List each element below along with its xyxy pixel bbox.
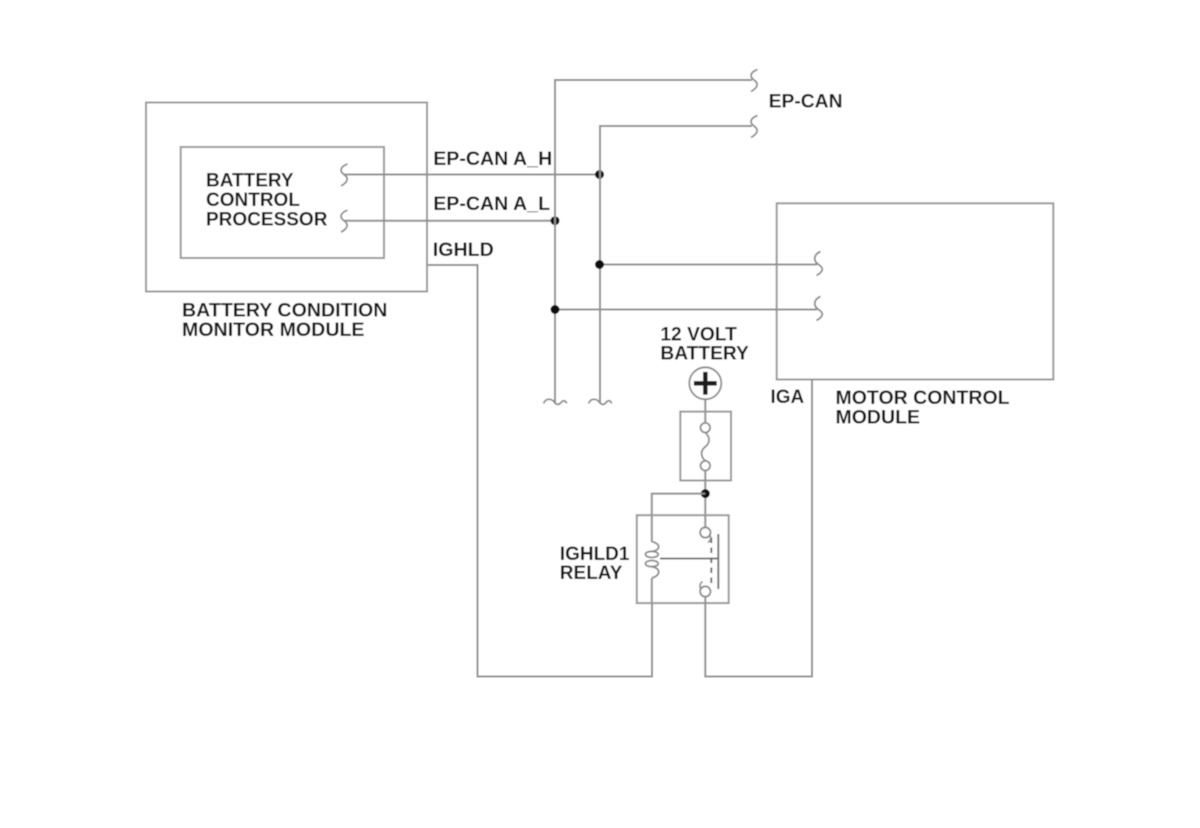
- label: BATTERY CONTROL PROCESSOR: [206, 171, 328, 231]
- break squiggle: EP-CAN top wire 1 right end: [751, 70, 758, 92]
- svg-text:CONTROL: CONTROL: [206, 190, 300, 211]
- svg-text:IGHLD1: IGHLD1: [560, 544, 630, 565]
- svg-text:MODULE: MODULE: [836, 406, 921, 428]
- junction dot: EP-CAN A_L at vertical V1: [551, 216, 560, 225]
- pin break squiggle: BCP pin EP-CAN A_L: [341, 210, 348, 232]
- wire EP-CAN A_H: [344, 174, 600, 176]
- pin break squiggle: BCP pin EP-CAN A_H: [341, 164, 348, 186]
- label: BATTERY CONDITION MONITOR MODULE: [182, 299, 387, 341]
- wire: battery to fuse: [704, 399, 706, 423]
- box: MOTOR CONTROL MODULE: [777, 203, 1054, 379]
- relay contact: top circle: [700, 527, 711, 542]
- fuse element: bottom contact circle: [701, 461, 711, 471]
- svg-text:EP-CAN A_L: EP-CAN A_L: [433, 193, 550, 215]
- label: MOTOR CONTROL MODULE: [836, 387, 1010, 429]
- break squiggle: bottom end of V2: [589, 399, 612, 404]
- pin break squiggle: MCM pin 1: [815, 252, 822, 276]
- wire: relay coil bottom lead: [651, 578, 653, 603]
- wire: IGHLD from BCMM to relay coil bottom: [427, 265, 652, 677]
- wire: vertical bus V1 with top corner to EP-CAN: [555, 80, 752, 402]
- junction dot: fuse output node: [701, 489, 710, 498]
- svg-text:RELAY: RELAY: [560, 563, 623, 584]
- wire: relay switch output down and over to MCM IGA: [705, 380, 812, 677]
- wire EP-CAN A_L: [344, 220, 555, 222]
- svg-text:BATTERY: BATTERY: [206, 171, 294, 192]
- pin break squiggle: MCM pin 2: [815, 297, 822, 321]
- wire: MCM pin wire 1 (from V2 into MCM): [600, 264, 817, 266]
- fuse element: wavy link: [702, 433, 709, 461]
- relay armature link: [660, 558, 718, 560]
- svg-text:IGA: IGA: [771, 387, 805, 408]
- box: IGHLD1 RELAY: [637, 515, 729, 603]
- svg-text:BATTERY: BATTERY: [660, 344, 749, 365]
- junction dot: EP-CAN A_H at vertical V2: [595, 170, 604, 179]
- box: BATTERY CONDITION MONITOR MODULE: [146, 103, 427, 292]
- relay coil: [645, 542, 658, 579]
- label: IGHLD1 RELAY: [560, 544, 630, 584]
- break squiggle: EP-CAN top wire 2 right end: [751, 116, 758, 138]
- relay contact: bottom circle: [700, 582, 711, 597]
- relay switch movable blade: [717, 534, 719, 589]
- svg-text:IGHLD: IGHLD: [433, 239, 494, 261]
- junction dot: MCM wire 2 at V1: [551, 305, 560, 314]
- relay switch dashed guide: [710, 538, 712, 585]
- wire: fuse to junction node: [704, 471, 706, 528]
- fuse element: top contact circle: [701, 423, 711, 433]
- junction dot: MCM wire 1 at V2: [595, 260, 604, 269]
- box: BATTERY CONTROL PROCESSOR: [181, 147, 384, 258]
- svg-text:BATTERY CONDITION: BATTERY CONDITION: [182, 299, 387, 321]
- svg-text:PROCESSOR: PROCESSOR: [206, 210, 328, 231]
- svg-text:EP-CAN A_H: EP-CAN A_H: [433, 148, 552, 170]
- svg-text:12 VOLT: 12 VOLT: [660, 325, 737, 346]
- svg-text:EP-CAN: EP-CAN: [769, 92, 843, 113]
- wire: vertical bus V2 with top corner to EP-CAN: [600, 126, 752, 402]
- fuse box: [680, 412, 731, 481]
- svg-text:MONITOR MODULE: MONITOR MODULE: [182, 319, 365, 341]
- wire: branch from junction node to relay coil: [652, 494, 706, 542]
- wire: MCM pin wire 2 (from V1 into MCM): [555, 309, 817, 311]
- battery positive terminal symbol: [689, 367, 721, 399]
- break squiggle: bottom end of V1: [544, 399, 567, 404]
- label: 12 VOLT BATTERY: [660, 325, 749, 365]
